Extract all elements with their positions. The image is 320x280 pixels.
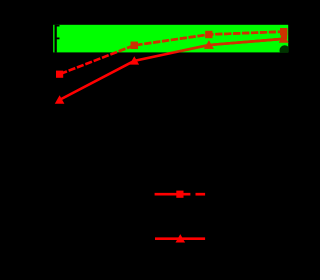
- series 2 triangle markers (bright): [55, 34, 289, 104]
- dark circle marker of hidden series over band bottom-right corner: [280, 45, 290, 55]
- square marker point 1: [56, 71, 63, 78]
- legend triangle marker: [176, 234, 186, 242]
- triangle marker point 1 over band: [55, 95, 65, 103]
- series 2 triangle markers over band (dark red): [55, 34, 289, 104]
- triangle marker point 2 over band: [130, 56, 140, 64]
- series 2 solid line over band (dark red): [60, 39, 284, 100]
- legend entry 2: solid line sample with triangle marker: [155, 234, 205, 242]
- triangle marker point 3: [204, 40, 214, 48]
- series 1 dashed red line (bright part on black background): [60, 32, 284, 75]
- triangle marker point 3 over band: [204, 40, 214, 48]
- legend dashed line long segment: [155, 193, 191, 196]
- square marker point 2 over band: [131, 42, 138, 49]
- series 2 solid red line (bright part on black background): [60, 39, 284, 100]
- series 1 square markers (bright): [56, 28, 287, 78]
- triangle marker point 4 over band: [279, 34, 289, 42]
- y-axis tick mark (upper, over band): [55, 25, 60, 27]
- darkened copies of the series where they cross the green band (clipped to band): [55, 28, 290, 104]
- series 1 dashed line over band (dark red): [60, 32, 284, 75]
- square marker point 2: [131, 42, 138, 49]
- square marker point 3 over band: [205, 31, 212, 38]
- square marker point 3: [205, 31, 212, 38]
- legend solid line: [155, 237, 205, 240]
- series 1 square markers over band (dark red): [56, 28, 287, 78]
- y-axis border line (black, over band): [55, 25, 57, 53]
- legend square marker: [176, 191, 183, 198]
- triangle marker point 2: [130, 56, 140, 64]
- square marker point 4 over band: [280, 28, 287, 35]
- square marker point 4: [280, 28, 287, 35]
- triangle marker point 4: [279, 34, 289, 42]
- legend entry 1: dashed line sample with square marker: [155, 191, 206, 198]
- triangle marker point 1: [55, 95, 65, 103]
- y-axis tick mark (middle, over band): [55, 38, 60, 40]
- ideal-speedup band (green region): [53, 25, 288, 53]
- legend dashed line short segment: [196, 193, 206, 196]
- filler joining last square and last triangle markers: [281, 33, 287, 40]
- square marker point 1 over band: [56, 71, 63, 78]
